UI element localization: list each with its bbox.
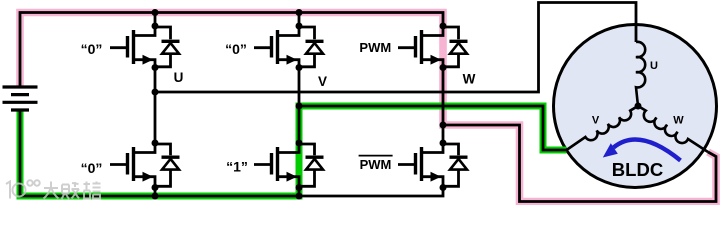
node Q4 drain	[296, 140, 303, 147]
node Q5 source	[440, 64, 447, 71]
battery BT1	[3, 87, 38, 110]
svg-text:PWM: PWM	[359, 40, 391, 55]
node Q2 drain	[152, 140, 159, 147]
wire: V leg, low-side source to ground rail	[298, 188, 301, 197]
node phase V node	[296, 103, 303, 110]
wire: V leg, high-side source to low-side drain	[298, 68, 301, 144]
svg-text:U: U	[174, 70, 184, 85]
wire: U leg, rail to high-side drain	[154, 13, 157, 27]
node phase U node	[152, 89, 159, 96]
node V leg / ground rail junction	[296, 193, 303, 200]
node Q4 source	[296, 184, 303, 191]
wire: negative/ground rail from battery- along bottom	[20, 110, 443, 196]
transistor Q6 (W low)	[398, 143, 443, 188]
node Q1 source	[152, 64, 159, 71]
node U leg / + rail junction	[152, 9, 159, 16]
wire: phase W output to motor (around the bottom)	[443, 125, 716, 202]
node V leg / + rail junction	[296, 9, 303, 16]
svg-text:U: U	[650, 60, 658, 72]
transistor Q2 (U low)	[110, 143, 155, 188]
body diode D4	[299, 144, 324, 186]
BLDC motor body M1	[554, 25, 717, 188]
svg-text:BLDC: BLDC	[612, 159, 663, 180]
node Q2 source	[152, 184, 159, 191]
node Q5 drain	[440, 23, 447, 30]
node U leg / ground rail junction	[152, 193, 159, 200]
node Q6 source	[440, 184, 447, 191]
svg-text:V: V	[592, 115, 600, 127]
wire: V leg, rail to high-side drain	[298, 13, 301, 27]
wire: phase V output to motor	[299, 106, 567, 150]
svg-text:“0”: “0”	[81, 160, 103, 176]
node Q3 source	[296, 64, 303, 71]
body diode D3	[299, 27, 324, 67]
wire: phase U output to motor (over the top)	[155, 3, 636, 93]
svg-text:PWM: PWM	[360, 157, 392, 172]
motor winding W coil	[638, 106, 708, 152]
rotation arrow (blue)	[614, 139, 681, 160]
motor winding U coil	[636, 42, 645, 106]
body diode D1	[155, 27, 180, 67]
svg-text:W: W	[463, 72, 476, 87]
svg-text:W: W	[673, 115, 684, 127]
transistor Q1 (U high)	[110, 26, 155, 68]
svg-text:V: V	[318, 74, 327, 89]
highlighted current path: battery- to V low-side (green)	[20, 106, 567, 196]
node Q6 drain	[440, 140, 447, 147]
body diode D2	[155, 144, 180, 186]
wire: positive rail from battery+ to top of bridge	[20, 13, 443, 88]
overline of PWM-bar	[359, 155, 393, 157]
node Q1 drain	[152, 23, 159, 30]
transistor Q4 (V low)	[254, 143, 299, 188]
watermark (decorative, faint)	[6, 180, 101, 199]
highlighted current path: battery+ to W high-side (pink)	[20, 13, 716, 202]
node motor star point	[635, 103, 642, 110]
body diode D5	[443, 27, 468, 67]
svg-text:“0”: “0”	[81, 41, 103, 57]
svg-text:“1”: “1”	[226, 159, 248, 175]
node Q3 drain	[296, 23, 303, 30]
node phase W node	[440, 122, 447, 129]
wire: W leg, high-side source to low-side drain	[442, 68, 445, 144]
wire: U leg, high-side source to low-side drain	[154, 68, 157, 144]
svg-text:“0”: “0”	[225, 41, 247, 57]
transistor Q3 (V high)	[254, 26, 299, 68]
motor winding V coil	[567, 106, 639, 150]
transistor Q5 (W high)	[398, 26, 443, 68]
wire: U leg, low-side source to ground rail	[154, 188, 157, 197]
body diode D6	[443, 144, 468, 186]
